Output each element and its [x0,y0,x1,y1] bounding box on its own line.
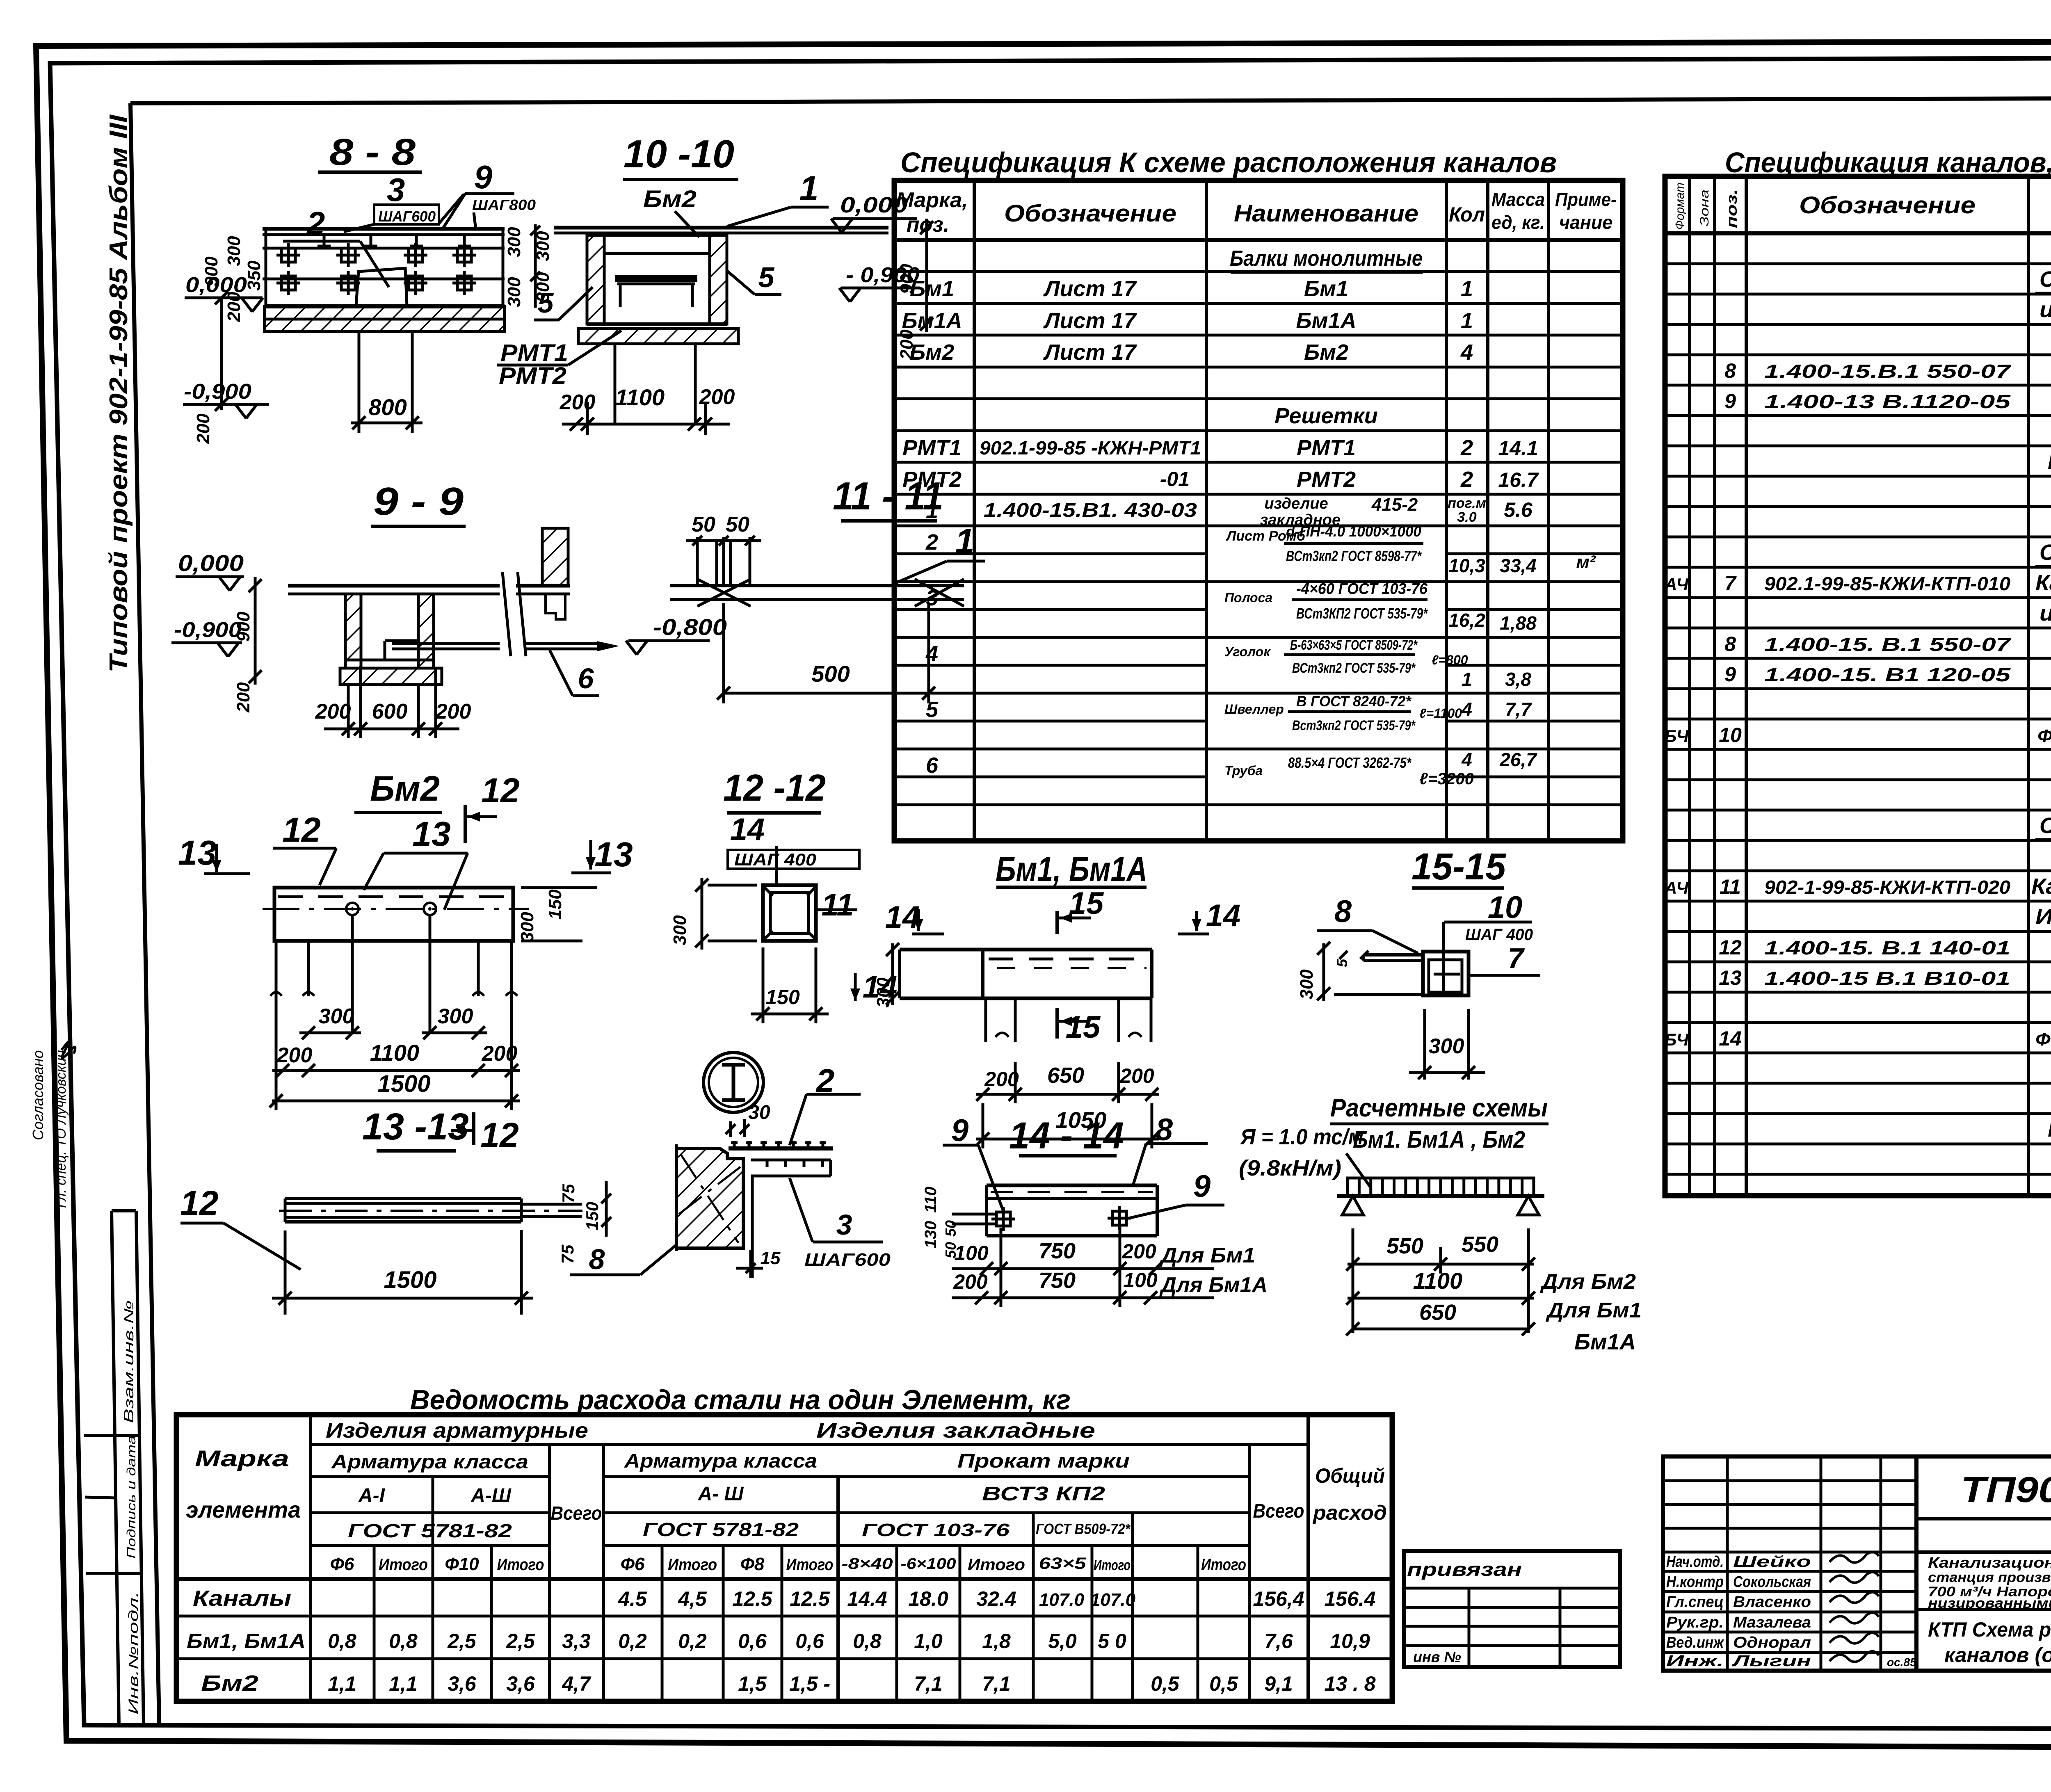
svg-text:14: 14 [1719,1027,1742,1050]
svg-text:Вст3кп2 ГОСТ 535-79*: Вст3кп2 ГОСТ 535-79* [1292,718,1416,733]
svg-text:107.0: 107.0 [1090,1590,1136,1610]
svg-text:Ф6: Ф6 [330,1554,354,1574]
svg-text:Бм1: Бм1 [1304,276,1348,301]
svg-text:63×5: 63×5 [1039,1555,1087,1573]
svg-text:Ф6ЛI ГОСТ5781-82 ℓ=280: Ф6ЛI ГОСТ5781-82 ℓ=280 [2037,726,2051,746]
svg-text:14.4: 14.4 [847,1587,887,1610]
svg-text:200: 200 [953,1270,988,1293]
svg-text:10: 10 [1719,724,1742,746]
svg-text:ГОСТ 103-76: ГОСТ 103-76 [862,1520,1010,1540]
svg-text:4: 4 [1460,340,1473,365]
svg-text:1.400-15. В1 120-05: 1.400-15. В1 120-05 [1764,664,2011,685]
svg-text:8: 8 [589,1243,605,1275]
svg-text:750: 750 [1039,1239,1076,1263]
svg-text:поз.: поз. [1723,189,1740,228]
svg-text:Вед.инж: Вед.инж [1666,1634,1724,1651]
11-11 plate [670,584,964,587]
svg-text:Бм1А: Бм1А [1296,308,1356,333]
svg-text:7: 7 [1724,572,1737,595]
svg-text:Итого: Итого [497,1556,544,1574]
svg-text:3: 3 [836,1209,852,1241]
svg-text:12.5: 12.5 [790,1587,830,1610]
svg-text:12: 12 [481,771,519,810]
svg-text:3,8: 3,8 [1505,669,1531,690]
svg-text:200: 200 [560,390,596,414]
svg-text:Я = 1.0 тс/м: Я = 1.0 тс/м [1240,1125,1364,1149]
svg-text:КТП Схема расположения: КТП Схема расположения [1928,1618,2051,1641]
svg-text:Итого: Итого [379,1556,428,1574]
svg-text:Изделия арматурные: Изделия арматурные [326,1419,588,1443]
svg-text:ШАГ600: ШАГ600 [804,1250,891,1270]
svg-text:Бм1. Бм1А , Бм2: Бм1. Бм1А , Бм2 [1353,1126,1525,1153]
svg-text:1: 1 [1462,669,1472,690]
svg-text:5.6: 5.6 [1504,498,1533,521]
svg-text:0,000: 0,000 [840,193,908,217]
svg-text:14 - 14: 14 - 14 [1009,1115,1124,1157]
svg-text:БЧ: БЧ [1665,1030,1689,1049]
svg-text:1.400-15 В.1 В10-01: 1.400-15 В.1 В10-01 [1764,968,2010,989]
svg-text:7,6: 7,6 [1264,1630,1293,1653]
svg-text:(9.8кН/м): (9.8кН/м) [1239,1156,1341,1180]
svg-text:12.5: 12.5 [732,1587,773,1610]
svg-text:Бетон марки М200: Бетон марки М200 [2048,1117,2051,1141]
svg-text:Ф6: Ф6 [621,1554,645,1574]
svg-text:900: 900 [897,264,917,294]
svg-text:ед, кг.: ед, кг. [1491,212,1545,233]
svg-text:150: 150 [582,1202,602,1230]
svg-text:Инж.: Инж. [1666,1653,1724,1670]
svg-text:300: 300 [504,227,524,257]
title block main [1916,1456,2051,1671]
svg-text:3.0: 3.0 [1457,509,1476,525]
svg-text:9 - 9: 9 - 9 [373,479,464,523]
svg-text:Итого: Итого [1094,1557,1131,1573]
10-10 channel bottom [587,322,727,326]
concrete block [676,1148,743,1248]
svg-text:-8×40: -8×40 [842,1555,893,1573]
9-9 left dim [254,577,257,685]
svg-text:7: 7 [1508,942,1525,974]
svg-text:Н.контр: Н.контр [1666,1573,1724,1591]
12-12 section [763,885,816,941]
svg-text:7,1: 7,1 [982,1672,1011,1695]
svg-text:15: 15 [761,1248,781,1268]
svg-text:1,5 -: 1,5 - [789,1672,830,1695]
svg-text:12: 12 [1719,936,1742,959]
svg-text:50: 50 [726,513,749,536]
mark 12 (13-13) [472,1112,475,1145]
svg-text:0,2: 0,2 [678,1630,707,1653]
svg-text:3,6: 3,6 [506,1672,535,1695]
load diagram [1348,1178,1534,1196]
svg-text:Труба: Труба [1224,763,1263,778]
svg-text:Каналы: Каналы [193,1586,291,1611]
svg-text:9: 9 [951,1113,968,1148]
svg-text:200: 200 [1119,1064,1154,1087]
svg-text:Итого: Итого [1201,1556,1246,1574]
svg-text:Лыгин: Лыгин [1731,1653,1811,1670]
svg-text:Марка: Марка [195,1445,289,1471]
svg-text:2: 2 [925,530,938,555]
svg-text:8 - 8: 8 - 8 [329,131,416,173]
svg-text:изделия закладные: изделия закладные [2040,297,2051,322]
svg-text:13 . 8: 13 . 8 [1324,1672,1375,1695]
left stamp column [112,1211,119,1725]
svg-text:9: 9 [1193,1169,1211,1204]
svg-text:7,7: 7,7 [1505,699,1532,720]
9-9 U channel [345,594,361,668]
svg-text:расход: расход [1312,1501,1387,1524]
svg-text:АЧ: АЧ [1664,575,1689,594]
svg-text:7,1: 7,1 [914,1672,943,1695]
svg-text:18.0: 18.0 [908,1587,948,1610]
svg-text:ТП902-1-99-85: ТП902-1-99-85 [1961,1469,2051,1510]
svg-text:Бм1, Бм1А: Бм1, Бм1А [187,1630,306,1653]
svg-text:Взам.инв.№: Взам.инв.№ [121,1300,136,1423]
svg-text:8: 8 [1156,1112,1173,1147]
svg-text:200: 200 [224,292,244,322]
svg-text:Сокольская: Сокольская [1733,1573,1811,1591]
svg-text:15: 15 [1069,886,1104,921]
svg-text:4,5: 4,5 [678,1587,707,1610]
svg-text:Ведомость расхода стали на оди: Ведомость расхода стали на один Элемент,… [410,1384,1071,1415]
svg-text:2: 2 [306,205,325,242]
svg-text:ос.85: ос.85 [1887,1656,1916,1669]
10-10 grating [615,275,697,282]
svg-text:Бм2: Бм2 [643,186,697,212]
svg-text:Бм1А: Бм1А [1574,1330,1636,1354]
svg-text:0,6: 0,6 [795,1630,825,1653]
svg-text:Приме-: Приме- [1555,189,1617,210]
svg-text:1,1: 1,1 [389,1672,418,1695]
svg-text:м²: м² [1576,552,1596,572]
title block signatures table [1663,1456,1916,1671]
Бм2 legs [275,941,278,996]
svg-text:-4×60 ГОСТ 103-76: -4×60 ГОСТ 103-76 [1296,580,1428,598]
svg-text:200: 200 [276,1043,313,1067]
Бм1 elevation body [900,948,1152,952]
svg-text:Лист 17: Лист 17 [1043,340,1137,365]
svg-text:10,3: 10,3 [1448,555,1485,576]
svg-text:Обозначение: Обозначение [1004,200,1176,227]
svg-text:Бм2: Бм2 [201,1671,258,1696]
svg-text:Кол: Кол [1449,203,1485,226]
svg-text:200: 200 [1121,1240,1156,1263]
svg-text:15: 15 [1066,1010,1101,1045]
svg-text:каналов (окончание): каналов (окончание) [1944,1644,2051,1666]
svg-text:12: 12 [180,1184,218,1222]
svg-text:4.5: 4.5 [618,1587,647,1610]
svg-text:Гл. спец. ТО Лучковский: Гл. спец. ТО Лучковский [53,1050,69,1208]
svg-text:75: 75 [559,1184,578,1203]
svg-text:3: 3 [387,171,405,208]
8-8 bolts [281,248,295,262]
svg-text:5: 5 [758,261,775,293]
svg-text:32.4: 32.4 [976,1587,1016,1610]
10-10 right dims [925,219,928,332]
svg-text:16,2: 16,2 [1448,610,1485,631]
svg-text:РМТ2: РМТ2 [499,363,566,389]
svg-text:Гл.спец: Гл.спец [1666,1593,1724,1611]
svg-text:Инв.№подл.: Инв.№подл. [126,1591,141,1714]
svg-text:А- Ш: А- Ш [698,1483,744,1505]
svg-text:8: 8 [1724,632,1736,655]
svg-text:Подпись и дата: Подпись и дата [125,1436,138,1559]
svg-text:Решетки: Решетки [1274,404,1378,428]
I-beam symbol circle [703,1052,763,1112]
13-13 bar [285,1197,521,1200]
svg-text:Однорал: Однорал [1733,1634,1811,1651]
svg-text:Канализационная насосная: Канализационная насосная [1928,1554,2051,1571]
svg-text:300: 300 [1429,1034,1464,1058]
10-10 walls [587,235,604,324]
svg-text:4: 4 [1461,699,1472,720]
svg-text:0,5: 0,5 [1151,1672,1180,1695]
svg-text:9: 9 [474,159,493,195]
svg-text:0,6: 0,6 [738,1630,767,1653]
svg-text:ВСт3кп2 ГОСТ 8598-77*: ВСт3кп2 ГОСТ 8598-77* [1286,548,1422,564]
Бм2 beam plan [274,888,513,941]
svg-text:Для Бм1: Для Бм1 [1159,1244,1255,1267]
svg-text:АЧ: АЧ [1664,878,1689,897]
svg-text:Рук.гр.: Рук.гр. [1666,1614,1724,1631]
svg-text:Нач.отд.: Нач.отд. [1666,1553,1724,1571]
svg-text:3,3: 3,3 [562,1630,591,1653]
svg-text:1,5: 1,5 [738,1672,767,1695]
svg-text:5: 5 [538,287,554,319]
svg-text:Типовой проект 902-1-99-85: Типовой проект 902-1-99-85 Альбом III [105,114,133,673]
svg-text:13: 13 [178,833,216,872]
svg-text:650: 650 [1047,1063,1084,1088]
svg-text:Наименование: Наименование [1234,200,1418,227]
svg-text:902-1-99-85-КЖИ-КТП-020: 902-1-99-85-КЖИ-КТП-020 [1764,877,2010,898]
svg-text:Полоса: Полоса [1224,590,1272,605]
inner content frame [130,98,2051,103]
svg-text:16.7: 16.7 [1498,468,1539,491]
svg-text:130: 130 [922,1221,940,1249]
svg-text:0,8: 0,8 [389,1630,418,1653]
svg-text:Мазалева: Мазалева [1733,1614,1811,1631]
svg-text:РМТ2: РМТ2 [1297,467,1356,492]
8-8 plate detail [356,268,407,306]
svg-text:Спецификация К схеме расположе: Спецификация К схеме расположения канало… [900,146,1557,178]
svg-text:изделие: изделие [1264,495,1328,512]
svg-text:Швеллер: Швеллер [1224,702,1284,717]
svg-text:12: 12 [480,1116,518,1154]
svg-text:1.400-15.В1. 430-03: 1.400-15.В1. 430-03 [984,500,1197,521]
svg-text:2,5: 2,5 [506,1630,535,1653]
svg-text:1: 1 [955,522,975,560]
svg-text:415-2: 415-2 [1371,495,1418,515]
svg-text:ГОСТ В509-72*: ГОСТ В509-72* [1036,1520,1131,1537]
svg-text:Для Бм2: Для Бм2 [1540,1270,1636,1294]
svg-text:0,000: 0,000 [178,550,244,576]
svg-text:1,1: 1,1 [328,1672,356,1695]
svg-text:Сборочные единицы: Сборочные единицы [2040,813,2051,838]
svg-text:Зона: Зона [1698,189,1711,226]
svg-text:10: 10 [1488,890,1523,925]
svg-text:Лист 17: Лист 17 [1043,308,1137,333]
svg-text:50: 50 [692,513,715,536]
svg-text:изделия закладные: изделия закладные [2040,601,2051,625]
svg-text:Арматура класса: Арматура класса [331,1451,528,1473]
svg-text:БЧ: БЧ [1665,726,1689,746]
svg-text:1,88: 1,88 [1500,612,1537,634]
9-9 shelf [385,639,418,642]
svg-text:300: 300 [224,236,244,266]
svg-text:привязан: привязан [1407,1559,1522,1580]
svg-text:900: 900 [233,612,254,642]
svg-text:10,9: 10,9 [1330,1630,1370,1653]
svg-text:11 - 11: 11 - 11 [833,474,943,518]
svg-text:300: 300 [504,277,524,307]
steel table grid [176,1415,1392,1701]
table 1 grid [894,180,1623,841]
svg-text:6: 6 [578,662,594,694]
svg-text:Ф10: Ф10 [445,1554,479,1574]
9-9 wall above [542,528,568,586]
svg-text:0,2: 0,2 [618,1630,647,1653]
svg-text:9: 9 [1724,663,1736,686]
svg-text:6: 6 [926,753,939,778]
svg-text:пог.м: пог.м [1448,495,1486,511]
svg-text:9: 9 [1724,390,1736,413]
svg-text:ВСт3КП2 ГОСТ 535-79*: ВСт3КП2 ГОСТ 535-79* [1296,605,1428,622]
svg-text:-6×100: -6×100 [901,1555,956,1573]
svg-text:Каркас плоский КР20: Каркас плоский КР20 [2035,571,2051,595]
svg-text:Итого: Итого [968,1556,1025,1574]
svg-text:13 -13: 13 -13 [362,1106,469,1148]
svg-text:Прокат марки: Прокат марки [957,1450,1130,1472]
table 2 grid [1665,176,2051,1196]
svg-text:ℓ=3200: ℓ=3200 [1419,770,1474,788]
svg-text:350: 350 [244,260,264,291]
svg-text:200: 200 [984,1068,1019,1091]
svg-text:12: 12 [282,810,320,849]
svg-text:В ГОСТ 8240-72*: В ГОСТ 8240-72* [1296,693,1412,710]
svg-text:14: 14 [885,900,920,935]
svg-text:Итого: Итого [668,1556,717,1574]
svg-text:902.1-99-85-КЖИ-КТП-010: 902.1-99-85-КЖИ-КТП-010 [1764,573,2010,594]
svg-text:8: 8 [1334,894,1352,929]
svg-text:-0,900: -0,900 [184,380,251,404]
svg-text:5 0: 5 0 [1098,1630,1126,1653]
svg-text:550: 550 [1462,1232,1498,1257]
svg-text:1.400-15.В.1 550-07: 1.400-15.В.1 550-07 [1764,361,2012,382]
svg-text:инв №: инв № [1413,1648,1461,1665]
svg-text:13: 13 [412,815,450,853]
svg-text:4: 4 [1461,749,1472,770]
svg-text:1.400-13 В.1120-05: 1.400-13 В.1120-05 [1764,391,2011,412]
14-14 beam [987,1184,1157,1187]
svg-text:156,4: 156,4 [1253,1587,1304,1610]
svg-text:-01: -01 [1160,468,1190,491]
9-9 top slab [288,584,500,588]
svg-text:Общий: Общий [1315,1464,1385,1487]
svg-text:200: 200 [315,700,351,724]
svg-text:-0,800: -0,800 [653,614,727,640]
9-9 bottom dims [347,685,350,738]
svg-text:Всего: Всего [551,1502,602,1524]
svg-text:650: 650 [1419,1300,1456,1325]
svg-text:А-I: А-I [358,1485,386,1507]
svg-text:300: 300 [438,1004,473,1028]
svg-text:0,8: 0,8 [328,1630,356,1653]
14-14 bolts [996,1212,1010,1226]
svg-text:200: 200 [897,329,917,360]
svg-text:Обозначение: Обозначение [1799,192,1976,219]
svg-text:Итого: Итого [786,1556,834,1574]
svg-text:ℓ=1100: ℓ=1100 [1419,706,1462,721]
svg-text:d-ПН-4.0 1000×1000: d-ПН-4.0 1000×1000 [1286,523,1421,540]
svg-text:Сборочные единицы: Сборочные единицы [2040,540,2051,565]
svg-text:Власенко: Власенко [1733,1593,1811,1611]
svg-text:900: 900 [201,256,222,287]
svg-text:РМТ1: РМТ1 [902,436,962,460]
svg-text:14: 14 [730,812,765,847]
8-8 slab [263,227,505,231]
svg-text:Для Бм1А: Для Бм1А [1159,1273,1268,1297]
svg-text:300: 300 [517,912,537,942]
svg-text:150: 150 [545,889,565,920]
svg-text:А-Ш: А-Ш [470,1485,512,1507]
svg-text:1500: 1500 [377,1071,430,1097]
svg-text:Расчетные схемы: Расчетные схемы [1330,1094,1548,1122]
svg-text:800: 800 [368,394,407,420]
svg-text:низированными решетками: низированными решетками [1928,1596,2051,1611]
svg-text:3,6: 3,6 [448,1672,477,1695]
svg-text:13: 13 [594,835,633,874]
svg-text:200: 200 [193,413,213,444]
svg-text:Ф8: Ф8 [740,1554,765,1574]
svg-text:550: 550 [1386,1234,1423,1258]
svg-text:Бм1, Бм1А: Бм1, Бм1А [996,850,1147,888]
svg-text:ШАГ 400: ШАГ 400 [734,850,816,869]
svg-text:1.400-15. В.1 550-07: 1.400-15. В.1 550-07 [1764,634,2012,655]
svg-text:0,8: 0,8 [853,1630,882,1653]
svg-text:8: 8 [1724,359,1736,382]
8-8 pedestal [358,331,361,420]
svg-text:100: 100 [954,1242,989,1265]
svg-text:14.1: 14.1 [1498,437,1538,460]
svg-text:500: 500 [811,661,850,687]
svg-text:300: 300 [1297,969,1317,1000]
svg-text:Бетон марки М 150: Бетон марки М 150 [2048,449,2051,474]
svg-text:15-15: 15-15 [1411,846,1507,888]
svg-text:1: 1 [799,169,819,208]
svg-text:11: 11 [822,888,854,922]
svg-text:110: 110 [922,1187,940,1213]
svg-text:Уголок: Уголок [1224,644,1271,659]
svg-text:Каркас плоский КР21: Каркас плоский КР21 [2031,874,2051,899]
svg-text:Бм2: Бм2 [1304,340,1348,365]
svg-text:4,7: 4,7 [562,1672,592,1695]
svg-text:ШАГ 400: ШАГ 400 [1465,926,1533,944]
svg-text:Согласовано: Согласовано [30,1050,46,1140]
svg-text:Шейко: Шейко [1733,1553,1811,1571]
svg-text:ГОСТ 5781-82: ГОСТ 5781-82 [643,1519,799,1540]
svg-text:1,8: 1,8 [982,1630,1011,1653]
svg-text:1: 1 [1461,276,1473,301]
svg-text:Всего: Всего [1253,1500,1304,1522]
svg-text:Изделия закладные: Изделия закладные [2035,904,2051,929]
svg-text:10 -10: 10 -10 [624,132,734,176]
10-10 slab [554,226,888,230]
grating bar on block [729,1146,833,1151]
svg-text:200: 200 [435,700,471,724]
svg-text:Изделия закладные: Изделия закладные [816,1419,1095,1443]
svg-text:300: 300 [319,1004,354,1028]
